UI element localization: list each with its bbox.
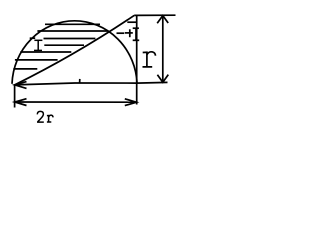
baseline right extension [137,81,168,84]
diameter baseline [15,83,137,85]
right extension vertical [136,15,138,104]
label I (left region) [34,39,42,41]
plus glyph [129,29,131,37]
2r right arrowhead [125,99,137,106]
label 2r : letter r [47,115,53,122]
center tick [79,79,81,83]
label 2r : digit 2 [37,111,44,122]
baseline left arrowhead [15,82,27,89]
chord [15,15,135,85]
2r left arrowhead [15,99,27,106]
2r dimension line [15,101,137,103]
sliver bracket tick [127,21,137,23]
hatch lines [45,23,100,25]
small I glyph (right) [135,28,137,40]
semicircle arc [12,21,137,84]
leader dash [117,32,125,34]
top line [134,14,175,16]
label r (right, large) [143,52,156,67]
r dim arrow bottom [157,75,168,83]
r dimension line [162,15,164,82]
r dim arrow top [157,16,168,24]
left extension vertical [14,84,16,108]
